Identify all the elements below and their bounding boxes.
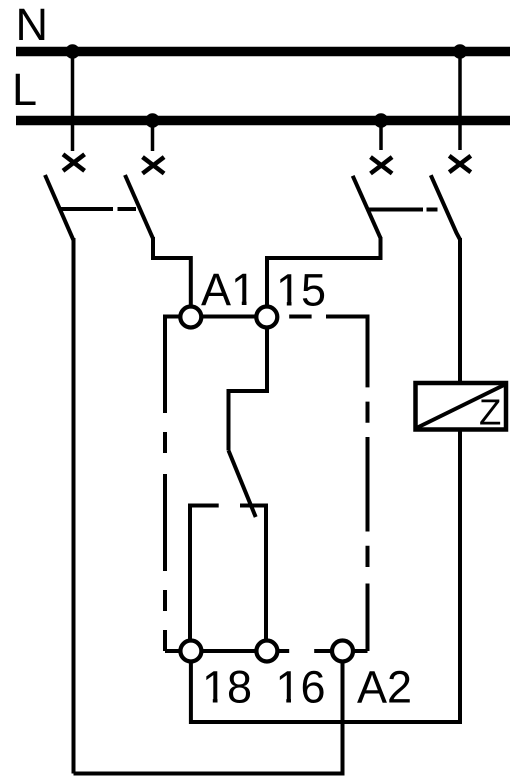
mechanical coupling S1-S2	[60, 207, 136, 211]
wire S4 to load Z	[458, 238, 462, 385]
switch S2 blade	[125, 175, 153, 239]
terminal 15	[256, 307, 277, 328]
junction dot L bus / S3	[374, 113, 389, 128]
load Z diagonal	[418, 385, 505, 428]
terminal 18	[180, 641, 201, 662]
wire terminal 18 to load Z	[191, 428, 460, 722]
terminal 16	[256, 641, 277, 662]
wire N bus to switch S1	[71, 52, 75, 152]
junction dot N bus / S1	[65, 44, 80, 59]
svg-text:A2: A2	[357, 662, 412, 713]
wire L bus to switch S2	[151, 121, 155, 152]
terminal cross X3	[371, 157, 393, 173]
svg-text:18: 18	[202, 662, 252, 713]
wire S3 to terminal 15	[267, 237, 381, 317]
terminal cross X2	[143, 157, 165, 173]
wire fixed contact to terminal 16	[240, 506, 266, 652]
terminal A1	[180, 307, 201, 328]
terminal cross X4	[449, 156, 471, 172]
wire N bus	[16, 47, 510, 57]
wire terminal 15 to contact pivot	[229, 317, 268, 451]
wire N bus to switch S4	[458, 52, 462, 151]
wire S1 down left side	[72, 238, 76, 774]
wire terminal A2 return to S1	[74, 651, 343, 774]
svg-text:A1: A1	[201, 264, 256, 315]
terminal A2	[332, 641, 353, 662]
wire S2 to terminal A1	[153, 237, 191, 317]
terminal cross X1	[63, 154, 85, 171]
switch S4 blade	[431, 175, 460, 239]
mechanical coupling S3-S4	[368, 208, 438, 212]
relay contact moving blade	[229, 451, 256, 518]
wire L bus	[16, 116, 510, 126]
relay box right edge	[366, 315, 370, 652]
wire fixed contact to terminal 18	[190, 506, 219, 652]
relay box left edge	[163, 315, 167, 652]
switch S3 blade	[353, 176, 381, 238]
load Z rectangle	[416, 383, 507, 430]
svg-text:N: N	[16, 0, 49, 50]
svg-text:L: L	[12, 64, 37, 115]
relay box top edge	[165, 315, 368, 319]
svg-text:15: 15	[276, 265, 326, 316]
junction dot L bus / S2	[145, 113, 160, 128]
svg-text:Z: Z	[479, 392, 501, 433]
switch S1 blade	[45, 175, 74, 240]
relay box bottom edge	[165, 649, 368, 653]
svg-text:16: 16	[276, 662, 326, 713]
junction dot N bus / S4	[453, 44, 468, 59]
wire L bus to switch S3	[379, 121, 383, 151]
